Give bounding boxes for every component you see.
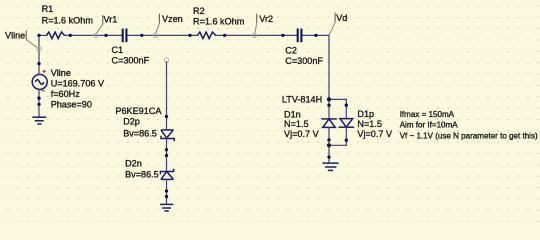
svg-text:N=1.5: N=1.5 bbox=[357, 119, 382, 129]
svg-text:f=60Hz: f=60Hz bbox=[51, 89, 81, 99]
junction: C2 left port bbox=[281, 34, 284, 37]
source minus polarity mark bbox=[41, 90, 44, 92]
junction: source ground port bbox=[37, 103, 40, 106]
wire: R1 right to C1 left bbox=[65, 34, 122, 36]
source plus polarity mark bbox=[42, 70, 46, 74]
svg-text:C=300nF: C=300nF bbox=[285, 56, 323, 66]
capacitor C2 bbox=[298, 29, 302, 43]
zener diode D2n bbox=[160, 169, 173, 180]
wire: D2p cathode to D2n cathode bbox=[166, 138, 168, 171]
open (unconnected) wire end above zener branch bbox=[164, 58, 168, 62]
junction: D2p anode port bbox=[165, 115, 168, 118]
junction: optocoupler ground port bbox=[327, 155, 330, 158]
svg-text:P6KE91CA: P6KE91CA bbox=[115, 106, 162, 116]
svg-text:Vline: Vline bbox=[5, 31, 25, 41]
junction: bottom link tee bbox=[327, 143, 331, 147]
junction: D2p cathode port bbox=[165, 148, 168, 151]
wire: D2n anode to ground bbox=[166, 179, 168, 204]
svg-text:R2: R2 bbox=[193, 6, 205, 16]
svg-text:D2n: D2n bbox=[125, 158, 142, 168]
svg-text:D2p: D2p bbox=[123, 117, 140, 127]
svg-text:C1: C1 bbox=[112, 45, 124, 55]
zener diode D2p bbox=[161, 130, 174, 141]
junction: source minus port bbox=[37, 97, 40, 100]
junction: zener branch ground port bbox=[165, 195, 168, 198]
junction: C2 right port bbox=[314, 34, 317, 37]
junction: R1 right port bbox=[69, 34, 72, 37]
wire: open end down to zener D2p anode bbox=[166, 62, 168, 130]
wire: bottom link between branches bbox=[329, 144, 346, 146]
svg-text:D1p: D1p bbox=[357, 109, 374, 119]
junction: C1 right port bbox=[140, 34, 143, 37]
ground (optocoupler branch) bbox=[322, 163, 338, 170]
svg-text:Vzen: Vzen bbox=[162, 14, 183, 24]
junction: Vd branch tee bbox=[327, 97, 331, 101]
wire: bottom link to ground bbox=[328, 145, 330, 162]
diode D1n bbox=[321, 119, 337, 128]
svg-text:Aim for If=10mA: Aim for If=10mA bbox=[400, 121, 459, 130]
junction: Vline corner / R1 left port bbox=[37, 34, 40, 37]
junction: R2 left port bbox=[188, 34, 191, 37]
wire: C2 right to node Vd corner bbox=[302, 34, 329, 36]
wire: down to D1n cathode bar bbox=[328, 99, 330, 119]
diode D1p bbox=[339, 119, 355, 128]
svg-text:C=300nF: C=300nF bbox=[112, 56, 150, 66]
wire: top link between D1n and D1p branches bbox=[329, 98, 346, 100]
svg-text:D1n: D1n bbox=[284, 110, 301, 120]
svg-text:R=1.6 kOhm: R=1.6 kOhm bbox=[193, 16, 244, 26]
node Vr1 (net label with pointer) bbox=[94, 15, 118, 38]
svg-text:R1: R1 bbox=[42, 4, 54, 14]
svg-text:N=1.5: N=1.5 bbox=[284, 119, 309, 129]
wire: C1 right through node Vzen to R2 left bbox=[127, 34, 197, 36]
svg-text:Bv=86.5: Bv=86.5 bbox=[125, 170, 159, 180]
resistor R1 bbox=[46, 32, 64, 38]
svg-text:C2: C2 bbox=[285, 45, 297, 55]
junction: source plus port bbox=[37, 62, 40, 65]
junction: D1n cathode port bbox=[327, 104, 330, 107]
svg-text:Ifmax = 150mA: Ifmax = 150mA bbox=[400, 110, 455, 119]
svg-text:Vd: Vd bbox=[336, 13, 347, 23]
ground (below source) bbox=[32, 117, 46, 124]
ground (zener branch) bbox=[160, 204, 173, 211]
junction: D1p cathode port bbox=[345, 139, 348, 142]
svg-text:Vj=0.7 V: Vj=0.7 V bbox=[284, 129, 320, 139]
node Vline (net label with pointer) bbox=[5, 31, 41, 51]
junction: C1 left port bbox=[104, 34, 107, 37]
svg-text:Vline: Vline bbox=[51, 68, 71, 78]
wire: node Vd down to optocoupler diode pair bbox=[328, 35, 330, 99]
junction: R2 right port bbox=[223, 34, 226, 37]
junction: D1p anode port bbox=[345, 104, 348, 107]
node Vd (net label with pointer) bbox=[329, 13, 347, 35]
node Vr2 (net label with pointer) bbox=[252, 14, 273, 38]
svg-text:R=1.6 kOhm: R=1.6 kOhm bbox=[42, 16, 93, 26]
wire: R2 right through node Vr2 to C2 left bbox=[216, 34, 297, 36]
svg-text:Vr2: Vr2 bbox=[259, 14, 273, 24]
svg-text:Vj=0.7 V: Vj=0.7 V bbox=[357, 129, 393, 139]
junction: D1n anode port bbox=[327, 138, 330, 141]
voltage source V1 Vline (AC sine source) bbox=[32, 64, 47, 99]
node Vzen (net label with pointer) bbox=[153, 14, 183, 38]
wire: node Vline to R1 left port bbox=[39, 34, 46, 36]
svg-text:Vf ~ 1.1V (use N parameter to: Vf ~ 1.1V (use N parameter to get this) bbox=[400, 132, 538, 141]
wire: D1n anode down to bottom link bbox=[328, 127, 330, 145]
resistor R2 bbox=[197, 32, 215, 38]
capacitor C1 bbox=[123, 29, 127, 43]
junction: D2n anode port bbox=[165, 189, 168, 192]
wire: node Vline down to source Vline plus terminal bbox=[38, 35, 40, 63]
svg-text:Bv=86.5: Bv=86.5 bbox=[123, 128, 157, 138]
junction: D2n cathode port bbox=[165, 154, 168, 157]
wire: down to D1p cathode bar bbox=[345, 99, 347, 118]
svg-text:LTV-814H: LTV-814H bbox=[282, 95, 322, 105]
svg-text:Vr1: Vr1 bbox=[104, 15, 118, 25]
wire: source minus to ground bbox=[38, 98, 40, 116]
svg-text:U=169.706 V: U=169.706 V bbox=[51, 79, 105, 89]
wire: D1p cathode down to bottom link bbox=[345, 127, 347, 145]
svg-text:Phase=90: Phase=90 bbox=[51, 100, 92, 110]
